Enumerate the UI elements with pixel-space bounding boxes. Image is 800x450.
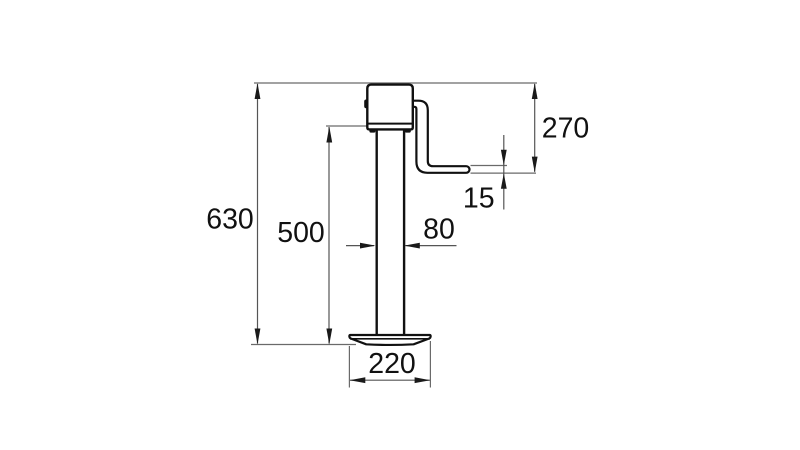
wire: bottom extension line under foot <box>251 344 356 346</box>
svg-text:220: 220 <box>368 348 416 380</box>
tube right line <box>403 130 405 335</box>
dimension 220 line with arrows <box>349 341 430 388</box>
foot plate inner line <box>350 338 430 340</box>
svg-text:630: 630 <box>206 203 254 235</box>
gearbox flange line <box>368 123 413 125</box>
crank handle (drawn before gearbox so the joint is hidden) <box>411 101 470 173</box>
dimension 270 line with arrows <box>532 83 538 173</box>
gearbox body <box>367 85 413 130</box>
wire: handle top extension line <box>471 165 508 167</box>
wire: 500 top extension line <box>326 125 367 127</box>
svg-text:500: 500 <box>277 217 325 249</box>
svg-text:80: 80 <box>423 214 455 246</box>
wire: handle bottom extension line <box>471 172 537 174</box>
dimension 15 arrows <box>501 135 507 210</box>
dimension 630 line with arrows <box>255 83 261 345</box>
dimension 80 arrows <box>346 243 457 249</box>
svg-text:270: 270 <box>542 113 590 145</box>
wire: top extension line (from 630 line over gearbox to 270 line) <box>254 82 537 84</box>
tube left line <box>376 130 378 335</box>
gearbox left nub <box>364 100 370 109</box>
dimension 500 line with arrows <box>326 127 332 345</box>
gearbox feet <box>369 129 375 133</box>
svg-text:15: 15 <box>463 183 495 215</box>
foot plate <box>349 335 430 345</box>
